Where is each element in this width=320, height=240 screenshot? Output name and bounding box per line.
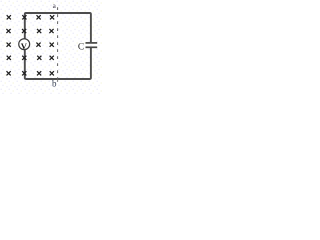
- capacitor C plates: [86, 43, 98, 47]
- field symbol x row3 col4: [50, 43, 54, 47]
- field symbol x row1 col1: [7, 15, 11, 19]
- svg-text:C: C: [78, 43, 84, 53]
- field symbol x row1 col2: [22, 15, 26, 19]
- field symbol x row3 col1: [7, 43, 11, 47]
- field symbol x row3 col3: [36, 43, 40, 47]
- wire: left + top + right-upper segment: [25, 13, 91, 42]
- field symbol x row5 col2: [22, 71, 26, 75]
- dashed line a-b: [57, 7, 59, 81]
- field symbol x row5 col3: [37, 71, 41, 75]
- svg-text:b: b: [52, 79, 57, 89]
- field symbol x row4 col2: [22, 56, 26, 60]
- field symbol x row4 col3: [37, 56, 41, 60]
- field symbol x row2 col4: [49, 29, 53, 33]
- field symbol x row2 col1: [6, 29, 10, 33]
- field symbol x row4 col1: [7, 56, 11, 60]
- field symbol x row5 col1: [7, 71, 11, 75]
- field symbol x row2 col3: [37, 29, 41, 33]
- wire: left-lower + bottom + right-lower segment: [25, 48, 91, 79]
- svg-text:V: V: [21, 41, 28, 51]
- field symbol x row1 col3: [37, 15, 41, 19]
- field symbol x row4 col4: [50, 56, 54, 60]
- field symbol x row5 col4: [50, 71, 54, 75]
- field symbol x row1 col4: [50, 15, 54, 19]
- field symbol x row2 col2: [22, 29, 26, 33]
- voltmeter V circle: [19, 39, 30, 51]
- dashed line fragment below bottom wire: [57, 80, 59, 82]
